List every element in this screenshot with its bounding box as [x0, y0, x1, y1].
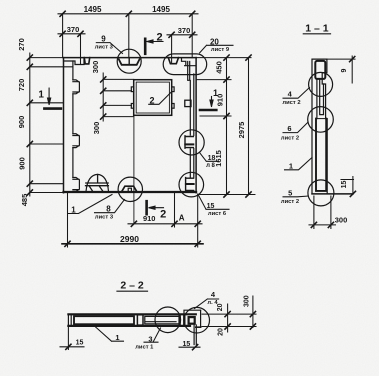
top dim line 1495+1495	[58, 14, 198, 58]
bottom weld channel trapezoid	[122, 186, 137, 191]
right dim chain lines	[197, 58, 249, 195]
section 2-2 right dim 15	[179, 346, 200, 348]
section 2-2 socket bar 1	[178, 316, 180, 325]
section 2-2 member bottom edge	[68, 325, 190, 327]
top-left corner channel	[84, 58, 89, 64]
section 1-1 dim 300	[309, 196, 336, 229]
plan bottom edge	[64, 191, 197, 193]
leader 6/лист2	[283, 122, 308, 133]
detail circle D	[179, 130, 204, 155]
weld channel in circle A	[119, 59, 140, 65]
E-plate in circle D	[185, 136, 193, 148]
bottom weld channel notch	[128, 188, 131, 191]
dimension tick marks	[27, 11, 251, 246]
left wall notch 1	[73, 80, 80, 94]
section mark 1 left	[44, 88, 61, 109]
left 370 dim	[58, 34, 85, 65]
leader 1 section	[285, 158, 313, 170]
plan right edge	[195, 58, 197, 193]
leader 15/лист6	[198, 194, 229, 209]
section 1-1 member outline	[312, 59, 327, 194]
section 1-1 ticks	[311, 57, 355, 228]
right wall notch plate	[185, 100, 191, 106]
leader 3/лист1	[144, 328, 161, 342]
section 2-2 left end cap	[68, 314, 74, 326]
detail stadium top-right	[163, 54, 207, 75]
section mark 1 right	[200, 97, 216, 111]
section 2-2 channel 1	[74, 316, 134, 324]
section 2-2 circle 3	[155, 307, 181, 333]
opening tab left lower	[131, 104, 133, 109]
central opening outer square	[134, 80, 172, 116]
left wall notch 3	[73, 178, 80, 192]
section 2-2 left dim 15	[60, 326, 84, 349]
opening tab right lower	[172, 104, 174, 109]
section 2-2 interlock ring	[189, 317, 195, 324]
top-right corner hook	[188, 62, 190, 81]
section 1-1 circle 6	[308, 107, 334, 133]
section 1-1 narrow slot	[317, 79, 324, 119]
section-2 extension line through plan	[133, 115, 135, 224]
leader 5/лист2	[283, 195, 308, 198]
interior 300 dims	[103, 73, 134, 121]
leader 4/л4	[195, 299, 219, 309]
section 2-2 right bottom edge	[196, 326, 201, 328]
section 2-2 right end cap	[200, 310, 202, 327]
section 2-2 right hook	[194, 325, 196, 345]
left dim chain line	[30, 53, 72, 196]
section 1-1 circle 4	[309, 72, 333, 96]
section 2-2 member top edge	[68, 313, 195, 315]
left wall notch 2	[73, 134, 80, 148]
central opening inner square	[136, 82, 169, 113]
opening tab right upper	[172, 87, 174, 92]
E-plate in circle E	[186, 178, 194, 191]
section 1-1 inner channel	[316, 118, 326, 120]
leader 2 opening	[149, 92, 171, 104]
right wall inner faces	[190, 74, 194, 192]
bottom 910 and A dims	[128, 193, 202, 248]
section mark 2 bottom	[147, 201, 164, 214]
leader 18/л8	[200, 153, 219, 162]
section 1-1 bottom edge	[312, 193, 353, 195]
leader 9/лист3	[96, 43, 122, 54]
section 1-1 dim 15	[341, 177, 354, 194]
top-right corner rebate	[182, 58, 195, 66]
section 2-2 circle 4	[184, 307, 210, 333]
section 1-1 title underline	[303, 33, 330, 35]
right 370 dim	[167, 35, 197, 64]
section 2-2 ticks	[66, 312, 256, 350]
section 2-2 right ext lines	[202, 296, 256, 332]
leader 8/лист3	[95, 200, 125, 213]
bottom-right corner extension	[198, 194, 255, 196]
detail circle A	[117, 49, 141, 73]
plan left edge	[63, 58, 65, 193]
section mark 2 top	[145, 39, 163, 54]
top-right corner channel	[168, 58, 178, 64]
section 2-2 channel 2	[145, 316, 178, 324]
opening tab left upper	[131, 87, 133, 92]
section 1-1 circle 5	[308, 180, 334, 206]
section 1-1 top dim 9	[327, 56, 355, 83]
detail circle E	[179, 172, 204, 197]
bottom 2990 dim	[62, 193, 203, 248]
section 2-2 socket bar 2	[183, 316, 185, 325]
bottom edge extension left	[30, 192, 64, 194]
lifting loop dome	[86, 174, 109, 191]
top-left corner rebate	[64, 58, 85, 65]
section 1-1 top slot	[315, 61, 325, 79]
plan top edge	[30, 57, 64, 59]
section 2-2 raised right top	[184, 310, 201, 314]
leader 1 section 2-2	[95, 327, 124, 342]
leader 1 bottom-left	[68, 195, 112, 214]
left wall inner face	[72, 61, 74, 178]
detail circle C	[118, 177, 142, 201]
section 2-2 title underline	[117, 290, 148, 292]
leader 20/лист9	[200, 45, 234, 53]
leader 4/лист2	[283, 88, 310, 99]
section 2-2 mid block	[137, 315, 143, 325]
